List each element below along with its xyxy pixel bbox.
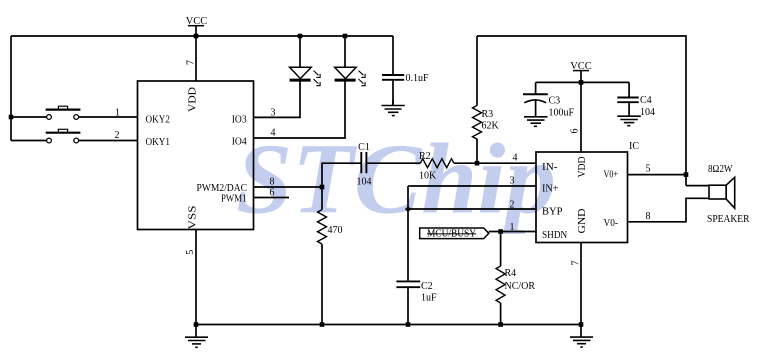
svg-text:GND: GND bbox=[577, 209, 588, 234]
wire C3 bottom bbox=[535, 99, 537, 117]
svg-text:V0+: V0+ bbox=[604, 170, 619, 181]
wire node to C1 bbox=[322, 163, 361, 187]
svg-text:MCU/BUSY: MCU/BUSY bbox=[427, 229, 476, 240]
wire pin 6 VDD amplifier IC bbox=[580, 82, 582, 152]
svg-text:C4: C4 bbox=[640, 95, 652, 106]
wire OKY2 right bbox=[79, 116, 138, 118]
node SHDN junction bbox=[498, 229, 503, 234]
node PWM2 junction bbox=[320, 185, 325, 190]
node BYP junction bbox=[405, 206, 411, 212]
wire IO3 to LED1 bbox=[254, 80, 301, 117]
svg-text:104: 104 bbox=[357, 177, 372, 188]
node VCC2 junction bbox=[579, 80, 584, 85]
resistor 470 bbox=[318, 210, 327, 244]
node OKY2 junction bbox=[9, 115, 14, 120]
LED 1 bbox=[290, 67, 321, 85]
capacitor C4 104 bbox=[617, 98, 638, 103]
wire pin 5 VSS main IC bbox=[195, 230, 197, 325]
ground bottom-right bbox=[570, 337, 593, 347]
node LED2 junction bbox=[343, 34, 348, 39]
wire IN+ down to C2 bbox=[407, 186, 409, 281]
push button bottom bbox=[46, 129, 81, 143]
resistor R2 10K bbox=[420, 159, 454, 168]
svg-text:C1: C1 bbox=[358, 142, 370, 153]
svg-text:VSS: VSS bbox=[188, 206, 199, 230]
wire 470 top bbox=[321, 187, 323, 210]
svg-text:10K: 10K bbox=[419, 171, 437, 182]
wire V0- to speaker bbox=[628, 198, 710, 222]
svg-text:IO3: IO3 bbox=[232, 115, 247, 126]
wire OKY1 right bbox=[79, 140, 138, 142]
svg-text:BYP: BYP bbox=[542, 207, 563, 218]
ground under 0.1uF bbox=[382, 106, 405, 116]
wire BYP bbox=[408, 208, 536, 210]
VCC symbol left bbox=[186, 16, 208, 27]
wire left rail bbox=[10, 36, 12, 141]
main voice IC box bbox=[138, 81, 254, 230]
svg-text:C3: C3 bbox=[549, 96, 561, 107]
svg-text:5: 5 bbox=[185, 250, 196, 255]
wire IO4 to LED2 bbox=[254, 80, 346, 138]
svg-text:R4: R4 bbox=[505, 268, 517, 279]
wire R4 bottom bbox=[500, 303, 502, 325]
svg-text:SHDN: SHDN bbox=[542, 230, 567, 241]
svg-text:7: 7 bbox=[571, 261, 582, 266]
svg-text:OKY1: OKY1 bbox=[146, 137, 171, 148]
wire 0.1uF cap top bbox=[392, 36, 394, 75]
svg-text:R3: R3 bbox=[482, 109, 494, 120]
wire VCC stub right bbox=[580, 70, 582, 82]
ground under C4 bbox=[617, 116, 641, 126]
svg-text:1: 1 bbox=[510, 222, 515, 233]
VCC symbol right bbox=[570, 61, 592, 72]
wire VCC stub left bbox=[195, 26, 197, 37]
svg-text:2: 2 bbox=[115, 130, 120, 141]
node V0+ speaker junction bbox=[684, 172, 689, 177]
node VCC1 junction bbox=[194, 34, 199, 39]
resistor R3 62K bbox=[473, 106, 482, 140]
wire LED1 anode to rail bbox=[299, 36, 301, 67]
wire speaker plus bbox=[686, 185, 709, 187]
resistor R4 NC/OR bbox=[496, 266, 505, 303]
wire C3 top bbox=[535, 82, 537, 94]
wire LED2 anode to rail bbox=[344, 36, 346, 67]
node R3-IN- junction bbox=[475, 161, 480, 166]
wire ground stub under 0.1uF bbox=[392, 100, 394, 106]
wire pin 7 GND amplifier IC bbox=[580, 243, 582, 325]
svg-text:4: 4 bbox=[513, 153, 518, 164]
push button top bbox=[46, 106, 81, 119]
node LED1 junction bbox=[298, 34, 303, 39]
wire C1 to R2 bbox=[367, 162, 421, 164]
node R4 bottom junction bbox=[498, 322, 503, 327]
svg-text:470: 470 bbox=[328, 225, 343, 236]
svg-text:1uF: 1uF bbox=[421, 293, 437, 304]
svg-text:62K: 62K bbox=[482, 121, 500, 132]
svg-text:PWM1: PWM1 bbox=[221, 194, 247, 205]
svg-text:NC/OR: NC/OR bbox=[505, 281, 536, 292]
svg-text:SPEAKER: SPEAKER bbox=[707, 214, 750, 225]
MCU/BUSY net flag bbox=[420, 228, 489, 240]
wire V0+ to node bbox=[628, 174, 687, 176]
LED 2 bbox=[335, 67, 366, 85]
wire 470 bottom bbox=[321, 244, 323, 324]
svg-text:7: 7 bbox=[186, 60, 197, 65]
svg-text:R2: R2 bbox=[419, 151, 431, 162]
svg-text:VDD: VDD bbox=[188, 87, 199, 112]
svg-text:8Ω2W: 8Ω2W bbox=[708, 164, 733, 175]
node GND pin7 junction bbox=[579, 322, 584, 327]
svg-text:V0-: V0- bbox=[604, 218, 619, 229]
wire ground stub right bbox=[580, 325, 582, 338]
wire PWM2/DAC bbox=[254, 186, 323, 188]
svg-text:1: 1 bbox=[115, 108, 120, 119]
wire IN+ bbox=[408, 185, 536, 187]
wire R4 top bbox=[500, 232, 502, 267]
ground under C3 bbox=[524, 117, 548, 127]
amplifier IC box (IC) bbox=[536, 152, 628, 243]
svg-text:104: 104 bbox=[640, 107, 655, 118]
svg-text:100uF: 100uF bbox=[549, 108, 575, 119]
wire C4 top bbox=[628, 82, 630, 97]
wire top-right rail bbox=[477, 36, 686, 186]
wire 0.1uF cap bottom bbox=[392, 80, 394, 106]
wire bottom rail bbox=[196, 324, 581, 326]
svg-text:4: 4 bbox=[271, 128, 276, 139]
svg-text:5: 5 bbox=[646, 164, 651, 175]
wire ground stub left bbox=[195, 325, 197, 338]
node C2 bottom junction bbox=[406, 322, 411, 327]
wire OKY1 left bbox=[11, 140, 47, 142]
capacitor 0.1uF bbox=[382, 75, 404, 80]
wire OKY2 left bbox=[11, 116, 47, 118]
svg-text:0.1uF: 0.1uF bbox=[406, 73, 430, 84]
wire top-left rail bbox=[11, 35, 393, 37]
svg-text:IN+: IN+ bbox=[542, 184, 559, 195]
capacitor C1 104 bbox=[361, 152, 366, 173]
ground bottom-left bbox=[185, 337, 208, 347]
speaker SPEAKER 8ohm2W bbox=[709, 177, 735, 208]
node 470 bottom junction bbox=[320, 322, 325, 327]
svg-text:PWM2/DAC: PWM2/DAC bbox=[197, 183, 248, 194]
wire R3 top bbox=[476, 36, 478, 106]
svg-text:STChip: STChip bbox=[236, 123, 556, 235]
svg-text:VDD: VDD bbox=[577, 157, 588, 178]
svg-text:OKY2: OKY2 bbox=[146, 115, 171, 126]
wire PWM1 stub bbox=[254, 197, 290, 199]
svg-text:6: 6 bbox=[570, 129, 581, 134]
wire C4 bottom bbox=[628, 102, 630, 116]
svg-text:8: 8 bbox=[646, 211, 651, 222]
capacitor C2 1uF bbox=[396, 281, 420, 287]
svg-text:IO4: IO4 bbox=[232, 137, 247, 148]
wire SHDN bbox=[489, 231, 536, 233]
svg-text:IN-: IN- bbox=[542, 162, 558, 173]
svg-text:8: 8 bbox=[270, 177, 275, 188]
capacitor C3 100uF bbox=[523, 94, 548, 103]
svg-text:C2: C2 bbox=[421, 281, 433, 292]
wire C2 bottom bbox=[407, 287, 409, 324]
wire pin 7 VDD main IC bbox=[195, 36, 197, 81]
svg-text:3: 3 bbox=[271, 108, 276, 119]
wire R2 to IN- bbox=[454, 162, 536, 164]
svg-text:6: 6 bbox=[270, 188, 275, 199]
wire R3 bottom bbox=[476, 139, 478, 164]
svg-text:2: 2 bbox=[510, 200, 515, 211]
node VSS ground junction bbox=[194, 322, 199, 327]
wire VCC rail C3 C4 bbox=[536, 81, 630, 83]
svg-text:3: 3 bbox=[510, 176, 515, 187]
svg-text:IC: IC bbox=[629, 141, 639, 152]
